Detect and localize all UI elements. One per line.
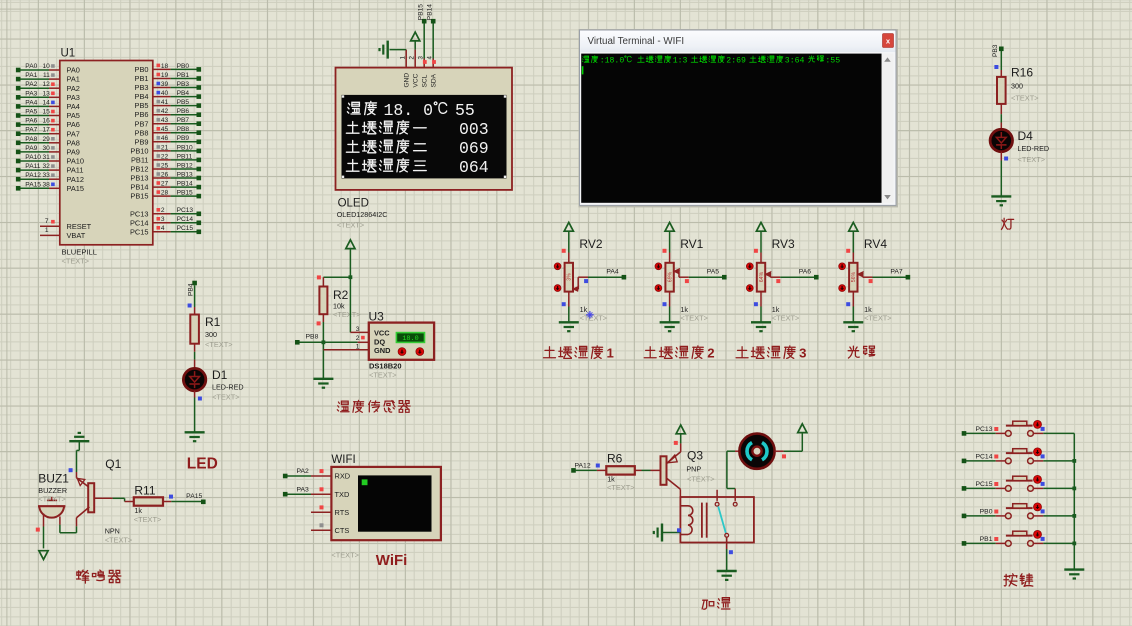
push button PB1 — [1005, 541, 1011, 547]
wire buzzer to arrow — [43, 527, 45, 549]
label 土壤湿度 — [544, 346, 603, 358]
pin indicator — [198, 397, 202, 401]
RV1 down button — [655, 285, 662, 292]
svg-text:PA5: PA5 — [707, 269, 720, 276]
terminal PA11 — [16, 168, 21, 173]
button actuator — [1034, 420, 1042, 428]
svg-text:VCC: VCC — [374, 328, 390, 337]
LED D4 — [990, 129, 1012, 151]
terminal PB15 — [422, 19, 427, 24]
svg-text:2: 2 — [356, 335, 360, 342]
motor fan blades — [747, 443, 752, 460]
terminal PA9 — [16, 150, 21, 155]
pin indicator — [51, 73, 55, 77]
wire U1 to PB4 — [153, 96, 171, 98]
svg-text:PNP: PNP — [686, 464, 701, 473]
screen handle dot — [342, 95, 344, 97]
pin indicator — [51, 173, 55, 177]
svg-text:PA2: PA2 — [25, 81, 37, 88]
terminal PA5 — [16, 113, 21, 118]
wire RTS stub — [311, 511, 331, 513]
svg-text:PB4: PB4 — [177, 90, 190, 97]
wire OLED VCC pin — [414, 50, 416, 68]
RV3 down button — [746, 285, 753, 292]
svg-text:18. 0: 18. 0 — [384, 101, 434, 120]
svg-text:32: 32 — [42, 163, 50, 170]
button actuator — [1034, 530, 1042, 538]
ground — [559, 321, 579, 323]
terminal title bar — [580, 31, 895, 52]
svg-text:1: 1 — [356, 344, 360, 351]
OLED row1 wendu — [347, 101, 376, 114]
svg-text:14: 14 — [42, 99, 50, 106]
svg-text:PB13: PB13 — [177, 171, 193, 178]
svg-text:U3: U3 — [369, 309, 385, 323]
svg-text:PB1: PB1 — [980, 536, 993, 543]
wire PA15 to U1 — [20, 187, 49, 189]
wire PC14 to button — [966, 460, 996, 462]
wire RV2 to PA4 — [588, 276, 624, 278]
pin indicator — [51, 110, 55, 114]
sensor U3 DS18B20 body — [369, 323, 434, 360]
wire to R2 top — [322, 277, 324, 286]
svg-text:NPN: NPN — [105, 526, 120, 535]
ground (rotated) — [661, 524, 663, 542]
pin indicator — [157, 163, 161, 167]
node junction — [322, 340, 326, 344]
svg-text:<TEXT>: <TEXT> — [212, 393, 240, 402]
pin indicator — [51, 220, 55, 224]
svg-text:PA15: PA15 — [186, 493, 202, 500]
wire PB8 bus — [300, 341, 358, 343]
potentiometer RV1 body — [665, 263, 673, 292]
terminal PB4 — [192, 281, 197, 286]
svg-text:PA12: PA12 — [25, 172, 41, 179]
svg-text:PC15: PC15 — [975, 481, 992, 488]
svg-text:1: 1 — [607, 346, 614, 361]
svg-text:PC13: PC13 — [177, 207, 194, 214]
svg-text:R11: R11 — [134, 484, 155, 498]
scrollbar up arrow — [884, 57, 891, 61]
wire power to RV3 — [760, 231, 762, 252]
svg-text::18.0: :18.0 — [600, 56, 625, 65]
svg-text:PB11: PB11 — [131, 156, 149, 165]
label 光强 — [848, 346, 875, 358]
power symbol — [756, 222, 765, 231]
ground — [313, 378, 333, 380]
resistor R11 — [134, 497, 163, 505]
svg-text:TXD: TXD — [335, 490, 350, 499]
svg-text:PB0: PB0 — [177, 63, 190, 70]
terminal PC15 — [962, 486, 967, 491]
terminal PA4 — [622, 275, 627, 280]
pin indicator — [994, 427, 998, 431]
svg-text:1k: 1k — [772, 305, 780, 314]
pin indicator — [188, 304, 192, 308]
ground — [991, 195, 1011, 197]
terminal PA2 — [283, 474, 288, 479]
svg-text:PB1: PB1 — [177, 72, 190, 79]
label 土壤湿度 — [644, 346, 703, 358]
wire emitter to power — [680, 443, 682, 451]
wire U1 to PB8 — [153, 132, 171, 134]
wire collector to buzzer — [76, 526, 78, 533]
svg-text:WIFI: WIFI — [331, 454, 355, 466]
terminal PC15 — [197, 230, 202, 235]
pin indicator — [782, 454, 786, 458]
terminal scrollbar — [882, 54, 894, 203]
node junction — [1072, 487, 1076, 491]
pin indicator — [157, 226, 161, 230]
wire PC15 to button — [966, 487, 996, 489]
pin indicator — [846, 302, 850, 306]
svg-text:22: 22 — [161, 153, 169, 160]
wire PA2 to RXD — [287, 475, 311, 477]
svg-text:PB8: PB8 — [306, 334, 319, 341]
wire U1 to PB0 — [153, 68, 171, 70]
svg-text:PA4: PA4 — [67, 102, 80, 111]
svg-text:55: 55 — [455, 101, 475, 120]
svg-text:PA3: PA3 — [67, 93, 80, 102]
ground — [717, 570, 737, 572]
svg-text:RV1: RV1 — [680, 237, 703, 251]
pin indicator — [51, 155, 55, 159]
pin indicator — [562, 249, 566, 253]
push button PB0 — [1005, 513, 1011, 519]
svg-text:<TEXT>: <TEXT> — [134, 515, 162, 524]
svg-text:PC13: PC13 — [130, 209, 149, 218]
wire button to bus — [1033, 487, 1043, 489]
svg-text:<TEXT>: <TEXT> — [38, 495, 66, 504]
pin indicator — [320, 487, 324, 491]
terminal PB8 — [197, 130, 202, 135]
terminal PA5 — [722, 275, 727, 280]
svg-text:<TEXT>: <TEXT> — [687, 474, 715, 483]
svg-text:PB4: PB4 — [188, 283, 195, 296]
terminal PA1 — [16, 77, 21, 82]
terminal PA10 — [16, 159, 21, 164]
WIFI module body — [331, 467, 441, 540]
terminal text line — [582, 56, 598, 63]
edit cursor crosshair — [589, 311, 591, 319]
svg-text:PB15: PB15 — [130, 192, 148, 201]
wire power to RV2 — [568, 231, 570, 252]
pin indicator — [69, 468, 73, 472]
power symbol — [849, 222, 858, 231]
svg-text:PB12: PB12 — [130, 165, 148, 174]
svg-text:Q1: Q1 — [105, 457, 121, 471]
svg-text:38: 38 — [42, 181, 50, 188]
svg-text:PA9: PA9 — [25, 145, 37, 152]
svg-text:PA4: PA4 — [606, 269, 619, 276]
wire RV4 to PA7 — [873, 276, 908, 278]
scrollbar down arrow — [884, 195, 891, 199]
wire PA7 to U1 — [20, 133, 49, 135]
RV4 down button — [839, 285, 846, 292]
svg-text:RXD: RXD — [335, 472, 351, 481]
terminal PA3 — [16, 95, 21, 100]
svg-text:PA3: PA3 — [296, 486, 309, 493]
svg-text:1k: 1k — [134, 506, 142, 515]
svg-text:PB3: PB3 — [992, 44, 999, 57]
svg-text:PA11: PA11 — [25, 163, 40, 170]
wire buzzer pin2 stub — [59, 517, 61, 525]
transistor Q3 emitter — [667, 452, 681, 464]
svg-text:41: 41 — [161, 99, 169, 106]
pin indicator — [584, 279, 588, 283]
svg-text:46: 46 — [161, 135, 169, 142]
svg-text:16: 16 — [42, 118, 50, 125]
svg-text:003: 003 — [459, 120, 489, 139]
terminal PC14 — [962, 459, 967, 464]
motor hub — [752, 447, 761, 456]
wire U1 to PB1 — [153, 78, 171, 80]
wire U1 to PB3 — [153, 87, 171, 89]
svg-text:43: 43 — [161, 117, 169, 124]
pin indicator — [157, 217, 161, 221]
relay pin NO stub — [716, 490, 718, 501]
svg-text:PB6: PB6 — [177, 108, 190, 115]
svg-text:29: 29 — [42, 136, 50, 143]
wire PB3 to R16 — [1000, 51, 1002, 70]
wire RV4 to ground — [852, 292, 854, 307]
svg-text:PB4: PB4 — [135, 92, 149, 101]
svg-text:PB3: PB3 — [177, 81, 190, 88]
pin indicator — [994, 65, 998, 69]
svg-text:R6: R6 — [607, 451, 623, 465]
resistor R2 — [319, 287, 327, 315]
pin indicator — [685, 279, 689, 283]
screen handle dot — [504, 176, 506, 178]
svg-text:PB6: PB6 — [135, 110, 149, 119]
screen handle dot — [504, 95, 506, 97]
OLED row turang shidu 069 — [346, 140, 426, 153]
relay contact NC — [733, 502, 737, 506]
svg-text:25: 25 — [161, 162, 169, 169]
svg-text:3: 3 — [799, 346, 806, 361]
terminal PB13 — [197, 176, 202, 181]
wire RESET — [40, 225, 60, 227]
svg-text:PB11: PB11 — [177, 153, 193, 160]
wire U1 to PB9 — [153, 141, 171, 143]
pin indicator — [51, 137, 55, 141]
svg-text:<TEXT>: <TEXT> — [205, 340, 233, 349]
terminal PB4 — [197, 94, 202, 99]
OLED row1 degree C — [434, 102, 446, 113]
wire RV2 to ground — [568, 292, 570, 307]
svg-text:PA12: PA12 — [575, 463, 591, 470]
button actuator — [1034, 503, 1042, 511]
OLED row turang shidu 003 — [346, 121, 426, 134]
svg-text:<TEXT>: <TEXT> — [369, 371, 397, 380]
wire R11 to PA15 — [163, 501, 171, 503]
label deng (lamp) — [1001, 218, 1013, 229]
power symbol — [676, 425, 685, 434]
terminal PA12 — [16, 177, 21, 182]
RV4 wiper — [858, 272, 864, 277]
svg-text:OLED: OLED — [338, 197, 369, 209]
terminal PA7 — [16, 131, 21, 136]
wire R16 to D4 — [1000, 104, 1002, 114]
svg-text:<TEXT>: <TEXT> — [62, 257, 90, 266]
svg-text:PA6: PA6 — [799, 269, 812, 276]
node junction — [1072, 542, 1076, 546]
svg-text:PB12: PB12 — [177, 162, 193, 169]
svg-text:64%: 64% — [759, 271, 765, 282]
wire PA3 to TXD — [287, 493, 311, 495]
wire to ground — [322, 342, 324, 379]
svg-text:PA1: PA1 — [25, 72, 37, 79]
svg-text:15: 15 — [42, 109, 50, 116]
power symbol — [798, 424, 807, 433]
svg-text:300: 300 — [1011, 82, 1023, 91]
wire common to ground — [726, 537, 728, 549]
svg-text:PB13: PB13 — [130, 174, 148, 183]
wire power to RV4 — [852, 231, 854, 252]
wire PA10 to U1 — [20, 160, 49, 162]
pin indicator — [1041, 482, 1045, 486]
wire D1 to ground — [194, 391, 196, 398]
svg-text:Virtual Terminal - WIFI: Virtual Terminal - WIFI — [588, 36, 685, 47]
svg-text:PA3: PA3 — [25, 90, 37, 97]
svg-text:BLUEPILL: BLUEPILL — [62, 248, 97, 257]
svg-text:PC15: PC15 — [177, 225, 194, 232]
svg-text:2: 2 — [707, 346, 714, 361]
terminal PC13 — [962, 431, 967, 436]
svg-text:3: 3 — [356, 326, 360, 333]
pin indicator — [157, 181, 161, 185]
node junction — [1072, 514, 1076, 518]
wire PA0 to U1 — [20, 69, 49, 71]
pin indicator — [157, 109, 161, 113]
terminal PB14 — [197, 185, 202, 190]
svg-text:69%: 69% — [667, 271, 673, 282]
pin indicator — [169, 495, 173, 499]
svg-text:RTS: RTS — [335, 508, 350, 517]
wire PA6 to U1 — [20, 124, 49, 126]
svg-text:PB14: PB14 — [130, 183, 148, 192]
motor fan body — [739, 434, 774, 469]
node junction — [349, 275, 353, 279]
svg-text:PA7: PA7 — [67, 129, 80, 138]
svg-text:PB8: PB8 — [177, 126, 190, 133]
wire emitter stub — [76, 472, 78, 478]
pin indicator — [51, 64, 55, 68]
wire OLED SCL to PB15 — [423, 59, 425, 68]
svg-text:BUZ1: BUZ1 — [38, 471, 69, 485]
transistor Q3 body bar — [661, 456, 667, 485]
label wendu chuanganqi (temperature sensor) — [337, 400, 410, 412]
svg-text:PB0: PB0 — [980, 509, 993, 516]
pin indicator — [51, 101, 55, 105]
svg-text:3%: 3% — [567, 273, 573, 281]
svg-text:27: 27 — [161, 181, 169, 188]
terminal PA15 — [16, 186, 21, 191]
U3 down button — [416, 348, 424, 356]
svg-text:18: 18 — [161, 63, 169, 70]
wire D4 to ground — [1000, 152, 1002, 161]
terminal PB0 — [197, 67, 202, 72]
pin indicator — [596, 464, 600, 468]
svg-text:39: 39 — [161, 81, 169, 88]
svg-text:R2: R2 — [333, 288, 349, 302]
wire PB1 to button — [966, 542, 996, 544]
terminal PA6 — [814, 275, 819, 280]
wire U1 to PB15 — [153, 195, 171, 197]
svg-text:RV2: RV2 — [579, 237, 602, 251]
pin indicator — [320, 469, 324, 473]
terminal PB3 — [197, 85, 202, 90]
pin indicator — [663, 249, 667, 253]
pin indicator — [157, 145, 161, 149]
pin indicator — [320, 523, 324, 527]
terminal PB7 — [197, 121, 202, 126]
resistor R6 — [606, 466, 635, 474]
wire button to bus — [1033, 542, 1043, 544]
wire OLED SDA to PB14 — [432, 59, 434, 68]
svg-text:PA2: PA2 — [296, 468, 309, 475]
transistor Q3 collector — [667, 478, 681, 489]
wire coil to ground — [662, 532, 680, 534]
pin indicator — [562, 302, 566, 306]
MCU U1 BLUEPILL body — [60, 61, 153, 245]
svg-text:<TEXT>: <TEXT> — [105, 535, 133, 544]
power arrow down — [39, 551, 48, 560]
svg-text:PB15: PB15 — [417, 4, 424, 20]
wire motor left — [735, 450, 739, 452]
relay contact NO — [715, 502, 719, 506]
pin indicator — [157, 136, 161, 140]
pin indicator — [754, 302, 758, 306]
button actuator — [1034, 448, 1042, 456]
svg-text:PA5: PA5 — [25, 109, 37, 116]
potentiometer RV4 body — [849, 263, 857, 292]
terminal PB9 — [197, 140, 202, 145]
U3 up button — [398, 348, 406, 356]
wire RV1 to PA5 — [689, 276, 725, 278]
svg-text:1k: 1k — [680, 305, 688, 314]
svg-text:PA5: PA5 — [67, 111, 80, 120]
RV2 down button — [554, 285, 561, 292]
svg-text:19: 19 — [161, 72, 169, 79]
label jiashi (humidify) — [702, 598, 730, 610]
terminal PC14 — [197, 221, 202, 226]
power symbol — [346, 240, 355, 249]
svg-text:11: 11 — [43, 72, 50, 79]
svg-text:12: 12 — [42, 81, 50, 88]
terminal PB8 — [295, 340, 300, 345]
svg-text:RV4: RV4 — [864, 237, 887, 251]
terminal PA3 — [283, 492, 288, 497]
svg-text:17: 17 — [42, 127, 50, 134]
terminal cursor — [582, 66, 584, 74]
push button PC14 — [1005, 458, 1011, 464]
svg-text:<TEXT>: <TEXT> — [1018, 155, 1046, 164]
button actuator — [1034, 475, 1042, 483]
wire CTS stub — [311, 529, 331, 531]
svg-text:PA8: PA8 — [67, 138, 80, 147]
svg-text:4: 4 — [161, 225, 165, 232]
svg-text:PA15: PA15 — [25, 181, 41, 188]
pin indicator — [157, 208, 161, 212]
svg-text:SDA: SDA — [431, 73, 438, 87]
terminal PB10 — [197, 149, 202, 154]
relay pin NC stub — [734, 489, 736, 501]
svg-text:<TEXT>: <TEXT> — [680, 314, 708, 323]
buzzer BUZ1 body — [38, 505, 65, 507]
svg-text:BUZZER: BUZZER — [38, 486, 67, 495]
relay switch blade — [718, 506, 726, 533]
